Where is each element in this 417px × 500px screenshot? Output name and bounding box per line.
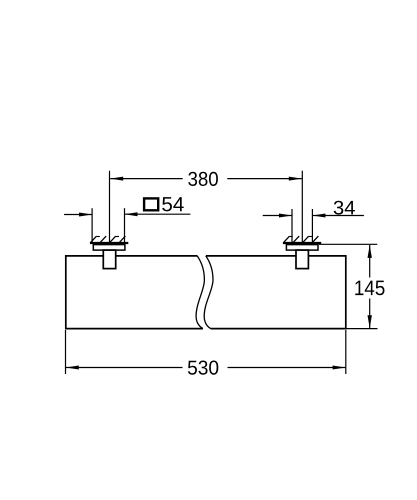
dim 54 left arrow (79, 213, 92, 217)
dim 54 right arrow (125, 212, 138, 216)
right bracket wall hatching (284, 236, 319, 242)
dim 34 right extension line (311, 209, 313, 243)
dim 54 right leader line (125, 213, 191, 215)
dim 54 label (162, 197, 183, 211)
left bracket stem (103, 250, 115, 269)
dim 530 label (188, 361, 218, 375)
shelf body outline right part (211, 256, 346, 329)
dim 530 left arrow (66, 366, 79, 370)
dim 380 left arrow (110, 177, 123, 181)
dim 145 up arrow (368, 245, 372, 258)
shelf top edge middle-right segment (206, 255, 296, 257)
dim 34 right leader line (312, 215, 364, 217)
dim 54 left extension line (91, 208, 93, 243)
dim 34 left leader line (263, 215, 292, 217)
dim 54 right extension line (124, 208, 126, 243)
shelf body outline left part (66, 256, 203, 329)
dim 145 line bottom segment (369, 299, 371, 329)
dim 34 left arrow (279, 214, 292, 218)
dim 530 line left segment (66, 367, 183, 369)
right bracket stem (296, 250, 308, 269)
left bracket wall line (90, 242, 128, 244)
dim 530 left extension line (65, 330, 67, 374)
dim 34 label (334, 201, 355, 215)
shelf top edge middle-left segment (116, 255, 198, 257)
dim 34 right arrow (312, 214, 325, 218)
dim 530 line right segment (228, 367, 346, 369)
dim 380 label (188, 172, 218, 186)
dim 34 left extension line (291, 209, 293, 243)
dim 380 right extension line (301, 171, 303, 244)
dim 380 right arrow (289, 177, 302, 181)
right bracket plate (286, 245, 318, 251)
dim 380 left extension line (109, 171, 111, 244)
right bracket wall line (283, 242, 321, 244)
dim 145 label (355, 281, 384, 296)
dim 145 bottom extension line (346, 328, 378, 330)
dim 380 line right segment (227, 178, 301, 180)
square symbol (144, 198, 158, 210)
left bracket wall hatching (91, 236, 126, 242)
dim 380 line left segment (110, 178, 183, 180)
break line left curve (196, 256, 204, 329)
break line right curve (204, 256, 213, 329)
dim 530 right extension line (345, 330, 347, 374)
dim 145 top extension line (319, 243, 377, 245)
dim 145 down arrow (368, 315, 372, 328)
left bracket plate (93, 245, 125, 251)
dim 145 line top segment (369, 245, 371, 278)
dim 54 left leader line (64, 214, 92, 216)
dim 530 right arrow (333, 366, 346, 370)
